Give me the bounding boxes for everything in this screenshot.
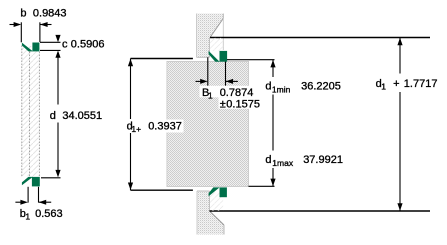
svg-text:0.9843: 0.9843 — [33, 7, 67, 19]
seal ring bottom (green) — [22, 177, 40, 187]
svg-text:0.3937: 0.3937 — [148, 121, 182, 133]
housing wall bottom (hatched bar with chamfer) — [197, 191, 224, 235]
svg-text:0.563: 0.563 — [35, 208, 63, 220]
dimension c: extension lines and arrows — [40, 35, 61, 58]
ring body section (hatched) — [21, 46, 39, 177]
B1 arrows — [196, 79, 238, 84]
B1 extension lines — [208, 51, 226, 86]
dimension d1 + 1.7717 (right) — [397, 38, 402, 212]
dimension b1: extension lines and arrows — [15, 187, 51, 205]
svg-text:1: 1 — [208, 90, 213, 100]
svg-text:1max: 1max — [272, 158, 294, 168]
svg-text:1+: 1+ — [131, 124, 141, 134]
seal ring top (green) — [22, 43, 40, 52]
svg-text:1: 1 — [25, 212, 30, 222]
d1max label — [264, 154, 343, 169]
svg-text:1.7717: 1.7717 — [404, 78, 438, 90]
d1min label — [264, 80, 341, 95]
seal bottom (green) in groove — [209, 187, 227, 197]
d1 bottom extension line — [210, 210, 431, 212]
svg-text:0.1575: 0.1575 — [226, 99, 260, 111]
d1 + 1.7717 label — [376, 78, 438, 92]
svg-text:36.2205: 36.2205 — [301, 80, 341, 92]
svg-text:34.0551: 34.0551 — [62, 110, 102, 122]
groove zone faint hatch (top) — [210, 38, 223, 51]
bore line continuation (light) — [222, 18, 224, 50]
svg-text:c: c — [62, 39, 68, 51]
dimension b1: label — [20, 208, 63, 222]
seal top (green) in groove — [209, 51, 228, 62]
svg-text:+: + — [393, 78, 399, 90]
d1+ label — [125, 120, 184, 135]
dimension b: arrows and extension lines — [10, 22, 52, 42]
dimension b: label — [20, 7, 66, 19]
groove zone faint hatch (bottom) — [210, 192, 223, 211]
dimension c: label — [62, 39, 104, 51]
svg-text:d: d — [50, 110, 56, 122]
d1 top extension line — [210, 37, 430, 39]
B1 label — [200, 86, 261, 111]
d1min / d1max dimension line — [227, 60, 276, 187]
dimension d1+ 0.3937 (left) — [128, 59, 193, 191]
svg-text:d: d — [265, 154, 271, 166]
svg-text:d: d — [265, 80, 271, 92]
svg-text:0.5906: 0.5906 — [71, 39, 105, 51]
svg-text:1: 1 — [381, 82, 386, 92]
bearing ring (gray block) — [167, 61, 250, 187]
svg-text:0.7874: 0.7874 — [220, 87, 254, 99]
svg-text:37.9921: 37.9921 — [303, 154, 343, 166]
dimension d: leader line with down arrow — [41, 53, 61, 178]
housing wall top (hatched bar with chamfer) — [197, 14, 224, 58]
dimension d: label — [48, 108, 103, 122]
svg-text:±: ± — [220, 99, 226, 111]
svg-text:1min: 1min — [272, 85, 291, 95]
svg-text:b: b — [20, 7, 26, 19]
